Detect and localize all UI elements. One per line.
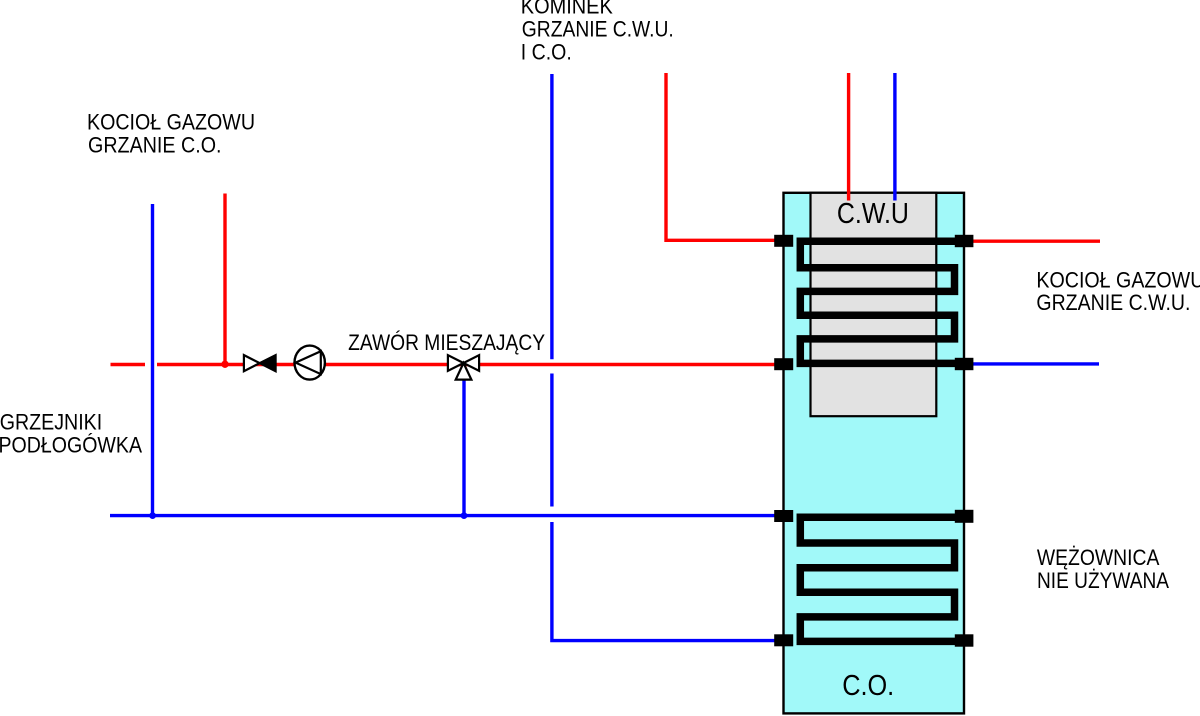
pipe stub tab right 1: [955, 235, 974, 247]
pump P1 circle: [295, 346, 325, 380]
wire blue right from gas boiler: [972, 362, 1099, 365]
svg-text:GRZANIE C.W.U.: GRZANIE C.W.U.: [522, 17, 674, 42]
svg-text:GRZANIE C.W.U.: GRZANIE C.W.U.: [1036, 290, 1190, 315]
svg-text:C.O.: C.O.: [842, 669, 894, 701]
wire red into tank top (C.W.U. supply): [847, 73, 850, 201]
pipe stub tab left 1: [774, 235, 793, 247]
wire red main horizontal C.O. supply: [157, 363, 776, 366]
wire red top right to gas boiler: [972, 239, 1100, 242]
wire blue KOMINEK riser upper segment: [550, 74, 553, 359]
mixing valve V2 bottom triangle: [456, 363, 472, 380]
svg-text:KOCIOŁ GAZOWU: KOCIOŁ GAZOWU: [1036, 268, 1200, 293]
check valve V1 left outlined triangle: [244, 355, 260, 371]
svg-text:GRZANIE C.O.: GRZANIE C.O.: [88, 133, 222, 158]
mixing valve V2 left triangle: [448, 355, 464, 371]
pump P1 triangle: [296, 351, 321, 374]
wire blue return horizontal: [110, 514, 776, 517]
wire blue KOMINEK riser lower segment to tank: [552, 522, 776, 641]
pipe stub tab right 2: [955, 358, 974, 370]
pipe stub tab right 4: [955, 634, 974, 646]
svg-text:C.W.U: C.W.U: [837, 197, 909, 229]
svg-text:GRZEJNIKI: GRZEJNIKI: [0, 409, 102, 434]
pipe stub tab left 2: [774, 358, 793, 370]
pipe stub tab right 3: [955, 510, 974, 523]
svg-text:WĘŻOWNICA: WĘŻOWNICA: [1037, 545, 1160, 570]
wire red main horizontal C.O. supply left stub: [111, 363, 146, 366]
svg-text:PODŁOGÓWKA: PODŁOGÓWKA: [0, 432, 142, 457]
mixing valve V2 right triangle: [464, 355, 480, 371]
coil lower C.O. serpentine (unused): [800, 517, 961, 641]
check valve V1 right filled triangle: [260, 355, 276, 371]
tank T1 inner C.W.U. vessel: [811, 193, 937, 416]
wire red vertical from KOCIOL GAZOWY C.O.: [223, 194, 226, 365]
svg-text:KOCIOŁ GAZOWU: KOCIOŁ GAZOWU: [87, 110, 255, 135]
svg-text:NIE UŻYWANA: NIE UŻYWANA: [1037, 568, 1169, 593]
tank T1 buffer vessel: [784, 193, 965, 714]
node junction dot blue mid: [461, 512, 468, 519]
svg-text:ZAWÓR MIESZAJĄCY: ZAWÓR MIESZAJĄCY: [348, 330, 545, 355]
wire red from KOMINEK down and right to tank: [666, 73, 776, 240]
wire blue into tank top (C.W.U. return): [893, 73, 896, 201]
svg-text:I C.O.: I C.O.: [521, 39, 572, 64]
wire blue KOMINEK riser middle segment: [550, 374, 553, 507]
pipe stub tab left 4: [774, 634, 793, 646]
pipe stub tab left 3: [774, 510, 793, 522]
wire blue drop from mixing valve: [462, 379, 465, 516]
node junction dot red: [221, 361, 228, 368]
wire blue vertical GRZEJNIKI riser: [151, 204, 154, 516]
node junction dot blue left: [149, 512, 156, 519]
coil upper C.W.U. heat exchanger serpentine: [800, 241, 961, 363]
